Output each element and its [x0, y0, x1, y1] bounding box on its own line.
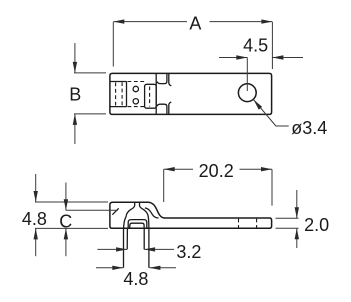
dim 4.5 arrow left — [219, 57, 247, 59]
top view hidden left vertical — [115, 83, 117, 106]
dim 2.0 arrow top — [296, 190, 298, 218]
dim C arrow bottom — [65, 228, 67, 256]
hole leader arrow — [254, 100, 263, 110]
mounting hole — [238, 84, 256, 102]
left leg inner — [126, 228, 128, 249]
dim 4.8/C shared ext bottom — [35, 227, 108, 229]
top view bottom flare — [169, 102, 172, 114]
top view bottom tab — [157, 104, 167, 114]
top view top flare — [169, 73, 172, 85]
top view hidden bottom line — [128, 106, 145, 108]
svg-text:ø3.4: ø3.4 — [291, 118, 327, 138]
svg-text:4.8: 4.8 — [22, 209, 47, 229]
top view crimp section top line — [110, 81, 127, 83]
side view spring finger right — [140, 202, 149, 216]
dim 4.8 left arrow top — [35, 174, 37, 202]
dim A line — [113, 21, 187, 23]
left leg outer — [124, 217, 127, 268]
svg-text:B: B — [69, 85, 81, 105]
side view body outline — [110, 202, 272, 228]
dim 20.2 ext left — [163, 169, 165, 202]
right leg inner — [143, 228, 145, 249]
top view top tab — [157, 73, 167, 83]
top view dimple hole upper — [133, 86, 138, 91]
dim B ext bottom — [74, 113, 106, 115]
top view band 2 hidden line — [149, 87, 151, 107]
side view inner S-curve — [145, 208, 159, 218]
dim C ext top — [66, 209, 118, 211]
dim A arrow left — [113, 19, 124, 23]
dim A ext right — [271, 22, 273, 69]
dim 4.8 left ext top — [35, 201, 108, 203]
top view hidden top line — [128, 81, 145, 83]
side view inner lip — [130, 223, 144, 228]
dim 2.0 arrow bottom — [296, 228, 298, 248]
svg-text:C: C — [59, 212, 72, 232]
dim A ext left — [112, 22, 114, 67]
dim 4.8 left arrow bottom — [35, 228, 37, 256]
hole leader line — [254, 100, 289, 126]
top view crimp section bottom line — [110, 106, 127, 108]
svg-text:2.0: 2.0 — [304, 215, 329, 235]
top view fold edge line — [155, 73, 157, 114]
dim 20.2 ext right — [271, 169, 273, 205]
top view fold band 1 right edge — [126, 82, 128, 107]
top view fold band 2 — [145, 84, 157, 108]
svg-text:4.8: 4.8 — [123, 269, 148, 289]
dim 4.8 bottom arrow right — [149, 267, 176, 269]
dim 20.2 line — [164, 168, 193, 170]
top view dimple hole lower — [133, 99, 138, 104]
dim 4.5 arrow right — [272, 57, 303, 59]
top view part outline — [110, 73, 272, 114]
svg-text:A: A — [189, 13, 201, 33]
dim 2.0 ext top — [276, 217, 299, 219]
svg-text:3.2: 3.2 — [176, 242, 201, 262]
dim B ext top — [74, 72, 106, 74]
right leg outer — [147, 217, 150, 268]
dim A arrow right — [261, 19, 272, 23]
dim 4.5 ext (hole center) — [246, 58, 248, 92]
dim 2.0 ext bottom — [276, 227, 299, 229]
dim 3.2 arrow right — [144, 248, 174, 250]
side view hole hidden line right — [256, 219, 258, 228]
side view lead-in chamfer — [112, 208, 118, 214]
dim B arrow top — [74, 43, 76, 73]
svg-text:20.2: 20.2 — [199, 161, 234, 181]
top view fold band 1 hidden left edge — [121, 82, 123, 106]
dim 20.2 arrow left — [164, 167, 175, 171]
side view slot window — [128, 220, 147, 229]
side view spring finger left — [126, 202, 135, 216]
dim 4.8 bottom arrow left — [96, 267, 123, 269]
dim B arrow bottom — [74, 114, 76, 144]
side view hole hidden line left — [238, 219, 240, 228]
svg-text:4.5: 4.5 — [243, 36, 268, 56]
dim 20.2 arrow right — [261, 167, 272, 171]
dim C arrow top — [65, 183, 67, 211]
dim 3.2 arrow left — [97, 248, 127, 250]
